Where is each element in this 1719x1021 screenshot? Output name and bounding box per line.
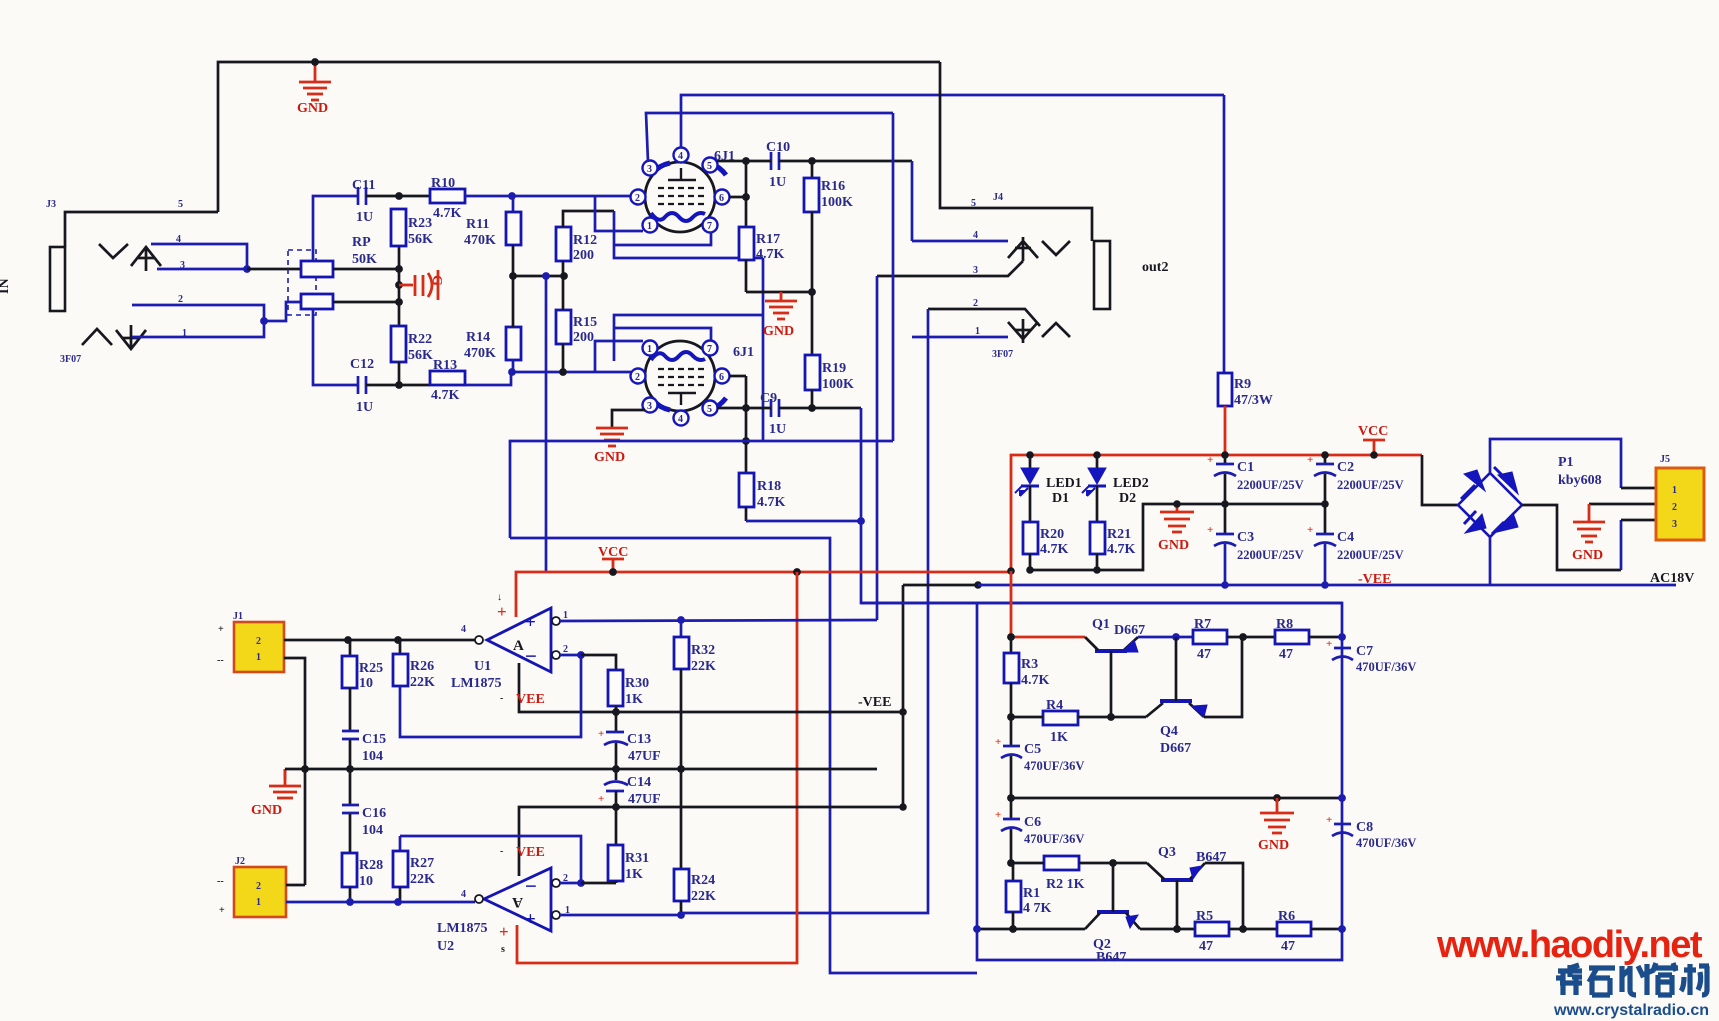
svg-text:R11: R11 (466, 217, 489, 232)
svg-text:+: + (1207, 524, 1213, 536)
svg-text:GND: GND (1258, 838, 1289, 853)
svg-text:+: + (218, 624, 224, 635)
svg-text:1U: 1U (769, 422, 786, 437)
resistor R4 (1043, 698, 1078, 745)
svg-text:200: 200 (573, 248, 594, 263)
wire tube1 pin4 plate riser (681, 95, 1224, 148)
svg-text:U2: U2 (437, 939, 454, 954)
svg-text:R1: R1 (1023, 886, 1040, 901)
svg-text:P1: P1 (1558, 455, 1574, 470)
svg-text:C16: C16 (362, 806, 386, 821)
svg-text:C5: C5 (1024, 742, 1041, 757)
capacitor C12 (350, 357, 374, 415)
J4 tip contact chevrons (1008, 237, 1070, 261)
wire output bottom rail (977, 928, 1085, 931)
svg-text:Q1: Q1 (1092, 617, 1110, 632)
wire Q1 emitter row (1138, 636, 1193, 639)
svg-text:1: 1 (563, 610, 568, 621)
svg-text:GND: GND (1158, 538, 1189, 553)
wire J1 pin1 to gnd column (284, 658, 305, 885)
svg-text:-VEE: -VEE (858, 695, 891, 710)
wire -VEE column (902, 585, 905, 807)
capacitor C6 (995, 798, 1084, 863)
svg-text:s: s (501, 944, 505, 955)
svg-text:3: 3 (973, 265, 978, 276)
resistor R23 (391, 209, 433, 247)
capacitor C11 (352, 178, 375, 225)
svg-text:R21: R21 (1107, 527, 1131, 542)
wire VCC rail red mid (516, 572, 1011, 617)
tube V2 6J1 (631, 341, 755, 426)
svg-text:4.7K: 4.7K (756, 247, 785, 262)
svg-text:C9: C9 (760, 391, 777, 406)
wire U1 pin2 row (560, 654, 581, 657)
resistor R20 (1023, 522, 1069, 570)
LED LED1/D1 (1015, 455, 1082, 522)
capacitor C15 (342, 688, 386, 769)
svg-text:R32: R32 (691, 643, 715, 658)
svg-text:C14: C14 (627, 775, 651, 790)
svg-text:100K: 100K (822, 377, 854, 392)
svg-text:1: 1 (647, 221, 652, 232)
svg-text:R9: R9 (1234, 377, 1251, 392)
svg-text:3: 3 (647, 164, 652, 175)
wire tube2 R15 web (614, 315, 763, 361)
svg-text:4: 4 (461, 624, 466, 635)
svg-text:C8: C8 (1356, 820, 1373, 835)
svg-text:+: + (995, 736, 1001, 748)
svg-text:1U: 1U (356, 210, 373, 225)
svg-text:-: - (500, 846, 503, 857)
J4 ring contact chevrons (1008, 319, 1070, 343)
svg-text:47UF: 47UF (628, 749, 661, 764)
svg-text:+: + (219, 905, 225, 916)
svg-text:C3: C3 (1237, 530, 1254, 545)
svg-text:47: 47 (1197, 647, 1211, 662)
svg-text:3: 3 (1672, 519, 1677, 530)
svg-text:R24: R24 (691, 873, 715, 888)
svg-text:2: 2 (256, 881, 261, 892)
svg-text:R31: R31 (625, 851, 649, 866)
wire bridge minus out (1489, 537, 1492, 585)
svg-text:B647: B647 (1096, 950, 1126, 965)
transistor Q2 B647 (1085, 863, 1140, 965)
transistor Q4 D667 (1146, 637, 1207, 756)
capacitor C16 (342, 769, 386, 853)
resistor R26 (393, 640, 435, 690)
ground GND psu (1158, 500, 1194, 553)
svg-text:-: - (500, 693, 503, 704)
wire middle vertical V4 (892, 113, 895, 441)
wire tube2 over row (614, 328, 711, 341)
svg-text:www.crystalradio.cn: www.crystalradio.cn (1553, 1002, 1709, 1019)
tube V1 6J1 (631, 148, 736, 233)
wire R4 row (1011, 716, 1043, 719)
ground GND input (251, 769, 301, 818)
resistor R7 (1193, 617, 1227, 662)
VCC power label (1358, 424, 1388, 459)
svg-text:+: + (497, 602, 507, 621)
J3 tip contact chevrons (99, 244, 161, 271)
wire RP wiper top to node (333, 268, 397, 271)
svg-text:RP: RP (352, 235, 371, 250)
resistor R13 (430, 358, 465, 403)
wire tube1 pin3 riser (646, 113, 893, 162)
node column R23-R22 (398, 246, 401, 326)
wire cathode drop (762, 258, 765, 441)
svg-text:--: -- (217, 655, 224, 666)
resistor R21 (1090, 522, 1136, 570)
svg-text:+: + (598, 728, 604, 740)
wire U1 input link (510, 538, 977, 973)
resistor R31 (608, 845, 649, 883)
svg-text:J2: J2 (235, 856, 245, 867)
svg-text:1: 1 (1672, 485, 1677, 496)
resistor R16 (804, 161, 853, 355)
connector J5 (1650, 454, 1704, 586)
svg-text:2: 2 (635, 372, 640, 383)
resistor R11 (464, 196, 521, 276)
svg-text:+: + (1326, 814, 1332, 826)
svg-text:104: 104 (362, 749, 383, 764)
svg-text:www.haodiy.net: www.haodiy.net (1436, 924, 1703, 966)
svg-text:4 7K: 4 7K (1023, 901, 1052, 916)
resistor R9 (1218, 373, 1273, 408)
wire R27 feedback loop (400, 836, 581, 883)
svg-text:R25: R25 (359, 661, 383, 676)
resistor R27 (393, 836, 435, 902)
wire R6 to edge (1311, 928, 1342, 931)
wire J2 pin1 row (286, 901, 475, 904)
resistor R8 (1275, 617, 1309, 662)
svg-text:1: 1 (975, 326, 980, 337)
svg-text:R19: R19 (822, 361, 846, 376)
resistor R3 (1004, 637, 1050, 717)
wire tube1 pin1 loop (595, 196, 643, 231)
svg-text:4.7K: 4.7K (1107, 542, 1136, 557)
svg-text:R16: R16 (821, 179, 845, 194)
svg-text:56K: 56K (408, 348, 433, 363)
capacitor C9 (760, 391, 786, 437)
svg-text:R3: R3 (1021, 657, 1038, 672)
svg-text:VEE: VEE (516, 692, 545, 707)
svg-text:R20: R20 (1040, 527, 1064, 542)
wire VCC top rail red (1011, 455, 1422, 571)
svg-text:+: + (1307, 524, 1313, 536)
svg-text:R26: R26 (410, 659, 434, 674)
wire J2 pin2 to gnd column (286, 884, 305, 887)
svg-text:3F07: 3F07 (60, 354, 81, 365)
svg-text:47: 47 (1279, 647, 1293, 662)
svg-text:100K: 100K (821, 195, 853, 210)
svg-text:50K: 50K (352, 252, 377, 267)
svg-text:22K: 22K (410, 872, 435, 887)
svg-text:AC18V: AC18V (1650, 571, 1694, 586)
bridge rectifier P1 kby608 (1458, 455, 1602, 537)
wire R10 to R11 node (465, 195, 631, 198)
wire ring pair to RP lower (264, 302, 301, 321)
wire cathode mid row (512, 275, 564, 278)
transistor Q3 B647 (1147, 845, 1226, 929)
svg-text:−: − (525, 874, 537, 898)
svg-text:1: 1 (256, 897, 261, 908)
connector J3 (0, 199, 81, 365)
VCC label mid (598, 545, 628, 572)
svg-text:4: 4 (461, 889, 466, 900)
svg-text:+: + (1326, 638, 1332, 650)
svg-text:3: 3 (647, 401, 652, 412)
svg-text:47UF: 47UF (628, 792, 661, 807)
svg-text:J4: J4 (993, 192, 1003, 203)
watermark crystalradio logo (1556, 963, 1709, 995)
svg-text:C12: C12 (350, 357, 374, 372)
wire R2 row (1011, 862, 1044, 865)
svg-text:4: 4 (678, 151, 683, 162)
wire J1 pin2 row (284, 639, 475, 642)
svg-text:470UF/36V: 470UF/36V (1024, 832, 1084, 846)
resistor R5 (1195, 909, 1229, 954)
resistor R10 (430, 176, 465, 221)
svg-text:G: G (429, 275, 444, 286)
svg-text:R28: R28 (359, 858, 383, 873)
svg-text:2200UF/25V: 2200UF/25V (1237, 478, 1304, 492)
wire middle vertical V6 (681, 309, 928, 913)
potentiometer RP 50K (288, 235, 377, 315)
svg-text:22K: 22K (691, 659, 716, 674)
svg-text:6: 6 (719, 372, 724, 383)
svg-text:out2: out2 (1142, 260, 1168, 275)
wire R9 to VCC rail red (1224, 406, 1227, 455)
svg-text:D2: D2 (1119, 491, 1136, 506)
svg-text:47: 47 (1199, 939, 1213, 954)
ground GND top (297, 58, 331, 116)
svg-text:3F07: 3F07 (992, 349, 1013, 360)
wire C11 row (313, 196, 358, 261)
svg-text:D1: D1 (1052, 491, 1069, 506)
svg-text:+: + (995, 809, 1001, 821)
ground GND j5 (1572, 504, 1605, 563)
resistor R30 (608, 670, 649, 731)
svg-text:47: 47 (1281, 939, 1295, 954)
svg-text:4.7K: 4.7K (1040, 542, 1069, 557)
wire bridge feed (1422, 455, 1458, 505)
connector J4 body (1094, 241, 1110, 309)
svg-text:5: 5 (971, 198, 976, 209)
transistor Q1 D667 (1085, 617, 1145, 717)
wire U1 pin1 row (560, 620, 877, 621)
svg-text:C7: C7 (1356, 644, 1373, 659)
svg-text:kby608: kby608 (1558, 473, 1602, 488)
wire tube1 pin5 to C10 row (717, 160, 771, 163)
wire mid ground row (285, 768, 877, 771)
capacitor C5 (995, 717, 1084, 798)
svg-text:D667: D667 (1160, 741, 1191, 756)
svg-text:47/3W: 47/3W (1234, 393, 1273, 408)
capacitor C1 (1207, 454, 1304, 504)
svg-text:1: 1 (256, 652, 261, 663)
svg-text:2: 2 (1672, 502, 1677, 513)
svg-text:+: + (1207, 454, 1213, 466)
svg-text:1: 1 (647, 344, 652, 355)
resistor R12 (556, 211, 614, 276)
wire bridge ac in (1522, 505, 1621, 570)
svg-text:4: 4 (973, 230, 978, 241)
wire J5 gnd pin (1589, 503, 1656, 506)
svg-text:10: 10 (359, 676, 373, 691)
resistor R22 (391, 326, 433, 385)
svg-text:−: − (525, 644, 537, 668)
ground GND mid (763, 292, 797, 339)
wire C12 row (313, 308, 358, 385)
wire plate rail down to R9 (1223, 95, 1226, 373)
wire tube1 under row (614, 232, 711, 245)
svg-text:LED2: LED2 (1113, 476, 1149, 491)
resistor R2 (1044, 856, 1085, 892)
svg-text:J5: J5 (1660, 454, 1670, 465)
wire J3 pin 5 (65, 212, 218, 247)
svg-text:LED1: LED1 (1046, 476, 1082, 491)
svg-text:-VEE: -VEE (1358, 572, 1391, 587)
wire tube2 pin1 loop (595, 341, 643, 372)
op-amp U2 LM1875 (437, 845, 570, 955)
wire RP wiper bottom to node (333, 301, 397, 304)
wire C10 node drop to R17 (745, 161, 748, 227)
capacitor C2 (1307, 454, 1404, 504)
svg-text:4.7K: 4.7K (1021, 673, 1050, 688)
wire top ground rail (218, 62, 940, 212)
op-amp U1 LM1875 (451, 592, 568, 707)
svg-text:1K: 1K (1050, 730, 1068, 745)
wire R26 feedback loop (400, 655, 581, 737)
wire tube1 R12 web (614, 211, 763, 258)
svg-text:4: 4 (678, 414, 683, 425)
svg-text:10: 10 (359, 874, 373, 889)
svg-text:5: 5 (707, 404, 712, 415)
svg-text:470K: 470K (464, 233, 496, 248)
capacitor C10 (766, 140, 790, 190)
wire -VEE rail blue (978, 584, 1676, 587)
svg-text:GND: GND (1572, 548, 1603, 563)
wire Q4 emitter loop (1204, 637, 1242, 717)
svg-text:C15: C15 (362, 732, 386, 747)
wire -VEE to PSU rail (903, 584, 978, 587)
wire Q1 base red feed (1011, 571, 1085, 637)
output stage box border (861, 603, 1342, 960)
wire -VEE row U1 (519, 663, 903, 712)
resistor R18 (739, 408, 786, 521)
svg-text:4.7K: 4.7K (431, 388, 460, 403)
resistor R24 (674, 769, 716, 919)
svg-text:Q4: Q4 (1160, 724, 1178, 739)
wire C9 row (717, 407, 771, 410)
resistor R19 (805, 355, 854, 408)
svg-text:+: + (525, 612, 536, 633)
svg-text:+: + (598, 793, 604, 805)
svg-text:J3: J3 (46, 199, 56, 210)
connector J1 (217, 611, 284, 672)
svg-text:Q3: Q3 (1158, 845, 1176, 860)
svg-text:C1: C1 (1237, 460, 1254, 475)
wire middle vertical V3 (876, 276, 879, 620)
svg-text:J1: J1 (233, 611, 243, 622)
svg-text:IN: IN (0, 278, 12, 294)
capacitor C4 (1307, 500, 1404, 585)
svg-text:6J1: 6J1 (733, 345, 754, 360)
svg-text:C13: C13 (627, 732, 651, 747)
svg-text:7: 7 (707, 221, 712, 232)
svg-text:470UF/36V: 470UF/36V (1024, 759, 1084, 773)
svg-text:1K: 1K (625, 867, 643, 882)
wire R18 bottom row (746, 520, 861, 523)
svg-text:1U: 1U (356, 400, 373, 415)
svg-text:2: 2 (635, 193, 640, 204)
wire middle vertical V5 (911, 161, 914, 241)
capacitor C8 (1326, 814, 1416, 850)
svg-text:VCC: VCC (1358, 424, 1388, 439)
svg-text:↓: ↓ (497, 592, 502, 603)
wire R7 R8 link (1227, 636, 1275, 639)
svg-text:1U: 1U (769, 175, 786, 190)
svg-text:R17: R17 (756, 232, 780, 247)
svg-text:4.7K: 4.7K (433, 206, 462, 221)
svg-text:4.7K: 4.7K (757, 495, 786, 510)
svg-text:C2: C2 (1337, 460, 1354, 475)
svg-text:R30: R30 (625, 676, 649, 691)
wire R5 R6 link (1229, 928, 1277, 931)
resistor R6 (1277, 909, 1311, 954)
wire Q3 emitter loop (1205, 863, 1243, 929)
svg-text:R27: R27 (410, 856, 434, 871)
svg-text:7: 7 (707, 344, 712, 355)
svg-text:470UF/36V: 470UF/36V (1356, 836, 1416, 850)
J3 ring contact chevrons (82, 325, 146, 349)
ground GND tube2 (594, 410, 645, 465)
wire bridge plus out (1490, 439, 1621, 488)
resistor R28 (342, 853, 383, 902)
ground GND output stage (1258, 798, 1294, 853)
svg-text:5: 5 (178, 199, 183, 210)
resistor R14 (464, 276, 521, 372)
svg-text:56K: 56K (408, 232, 433, 247)
svg-text:104: 104 (362, 823, 383, 838)
red stamp capacitor mark (399, 270, 444, 300)
resistor R32 (674, 620, 716, 769)
svg-text:2: 2 (973, 298, 978, 309)
wire J3 ring to RP (247, 268, 301, 271)
svg-text:GND: GND (251, 803, 282, 818)
capacitor C13 (598, 728, 661, 769)
svg-text:GND: GND (297, 101, 328, 116)
svg-text:A: A (513, 638, 524, 654)
svg-text:LM1875: LM1875 (451, 676, 502, 691)
resistor R25 (342, 640, 383, 691)
resistor R15 (556, 276, 597, 376)
svg-text:+: + (1307, 454, 1313, 466)
wire U2 pin1 row (560, 913, 681, 915)
svg-text:2200UF/25V: 2200UF/25V (1337, 478, 1404, 492)
svg-text:LM1875: LM1875 (437, 921, 488, 936)
svg-text:R22: R22 (408, 332, 432, 347)
svg-text:2: 2 (178, 294, 183, 305)
svg-text:C11: C11 (352, 178, 375, 193)
svg-text:2200UF/25V: 2200UF/25V (1337, 548, 1404, 562)
svg-text:R2 1K: R2 1K (1046, 877, 1085, 892)
svg-text:GND: GND (763, 324, 794, 339)
svg-text:200: 200 (573, 330, 594, 345)
svg-text:U1: U1 (474, 659, 491, 674)
resistor R17 (739, 227, 785, 292)
wire tube2 pin6 row (729, 375, 746, 378)
